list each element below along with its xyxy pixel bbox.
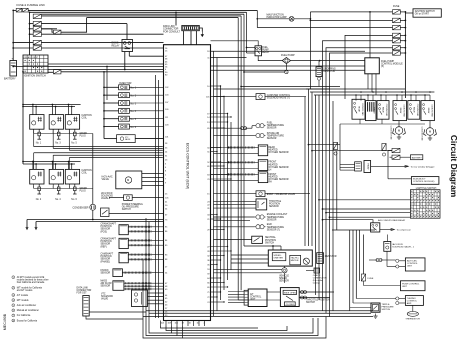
connector throttle switch a: [301, 291, 307, 294]
wire left loop c: [149, 328, 172, 334]
svg-text:SWITCH: SWITCH: [382, 309, 391, 311]
wire sensor front heated oxygen RH lead: [211, 173, 229, 175]
wire ECCS relay pins bottom: [124, 52, 126, 70]
svg-text:CONTROL MODULE): CONTROL MODULE): [413, 181, 435, 183]
spark plug No. 4 rear: [58, 184, 60, 187]
injector No.1: [119, 85, 130, 90]
sensor front heated oxygen LH: [258, 160, 267, 171]
spark plug No. 6 rear: [74, 184, 76, 187]
svg-text:IGNITION SWITCH: IGNITION SWITCH: [415, 11, 435, 13]
svg-text:COIL: COIL: [82, 117, 88, 119]
svg-text:REAR: REAR: [268, 146, 275, 149]
wire fuse F5 to ECM: [41, 42, 163, 44]
wire FP relay feeds: [247, 52, 256, 54]
fusible link 1: [16, 8, 22, 12]
svg-text:Except for California: Except for California: [17, 319, 38, 322]
svg-text:AIR FLOW: AIR FLOW: [101, 282, 113, 285]
wire left bus C: [145, 218, 147, 330]
wire coolant temp: [214, 216, 255, 218]
fuse right 5: [393, 39, 401, 43]
svg-text:All M/T models except GXE: All M/T models except GXE: [17, 276, 45, 279]
fuse right mid 1: [392, 148, 400, 152]
svg-text:Circuit Diagram: Circuit Diagram: [449, 135, 459, 197]
wire coil ground No. 5 front: [68, 129, 70, 133]
svg-text:COOLING FAN: COOLING FAN: [390, 126, 393, 140]
wire injector supply bus vertical: [103, 72, 105, 124]
svg-text:RH: RH: [268, 182, 272, 184]
wire injector No.1 feed: [104, 86, 119, 88]
svg-text:(POS): (POS): [101, 231, 108, 233]
box IGNITION SWITCH ON or START: [413, 9, 441, 17]
wire fuse F4 to ECM: [41, 33, 163, 35]
connector auto A/C b: [396, 259, 399, 262]
svg-text:TEMPERATURE: TEMPERATURE: [267, 124, 285, 127]
wire ECM bottom L-runs: [161, 326, 259, 328]
wire sensor front heated oxygen RH b: [214, 180, 259, 182]
wire coolant temp b: [214, 219, 251, 221]
wire bus V1 d: [223, 97, 225, 291]
svg-text:No. 3: No. 3: [131, 103, 137, 105]
svg-text:AIR CONDITIONER RELAY: AIR CONDITIONER RELAY: [378, 219, 406, 222]
wires lighting switch left: [319, 199, 410, 201]
svg-text:No. 5: No. 5: [131, 119, 137, 121]
svg-text:SOLENOID VALVE (7): SOLENOID VALVE (7): [267, 97, 290, 100]
svg-text:COOLING FAN: COOLING FAN: [430, 104, 433, 117]
wire BCM left: [388, 178, 411, 180]
sensor rear heated oxygen: [258, 145, 267, 156]
svg-text:CLOSED: CLOSED: [286, 304, 295, 306]
battery: [10, 61, 17, 77]
svg-text:Auto air conditioner: Auto air conditioner: [17, 304, 37, 307]
unit AUTO A/C CONTROL UNIT: [405, 258, 425, 271]
wire fuse right 2 out: [400, 19, 405, 21]
switch triple-pressure: [371, 303, 380, 312]
wire FP relay top to ECM: [211, 41, 259, 46]
wire injector No.5 to ECM: [129, 118, 163, 120]
shielded wire sensor front heated oxygen LH a: [229, 161, 255, 163]
svg-text:No. 1: No. 1: [36, 143, 42, 145]
wire coil ground No. 6 rear: [68, 184, 70, 188]
wire fuel temp left: [214, 127, 243, 129]
svg-text:SWITCH: SWITCH: [306, 302, 315, 304]
odometer box: [290, 255, 301, 264]
relay cooling fan relay-2: [377, 101, 389, 120]
ignition coil No. 6 rear: [65, 169, 79, 184]
fuel pump: [282, 58, 290, 64]
wire under relays bus: [340, 123, 425, 125]
svg-text:BATTERY: BATTERY: [412, 156, 422, 159]
svg-text:DATA LINK: DATA LINK: [77, 286, 89, 289]
wire battery riser: [12, 10, 14, 60]
wire fuel pump return: [244, 71, 285, 73]
wire relay row risers: [355, 95, 357, 101]
sensor throttle position: [256, 199, 267, 210]
wire left loop a: [143, 333, 183, 339]
wire coil feed bus rear: [23, 161, 81, 163]
sensor mass air flow: [113, 281, 124, 291]
wire canister valve right: [265, 96, 306, 98]
svg-text:For California: For California: [17, 314, 31, 317]
check connector symbol: [314, 268, 320, 273]
wire bus V3 f: [322, 95, 324, 311]
wire injector No.3 feed: [104, 102, 119, 104]
svg-text:5: 5: [13, 305, 14, 307]
injector No.6: [119, 124, 130, 129]
wire condenser to ground bus: [92, 210, 94, 219]
wire left bus E: [142, 260, 144, 333]
wire EGRC valve right: [265, 193, 310, 195]
svg-text:than California and Canada: than California and Canada: [17, 281, 45, 284]
svg-text:RELAY: RELAY: [262, 51, 270, 54]
svg-text:FUEL PUMP: FUEL PUMP: [281, 54, 295, 57]
svg-text:METER: METER: [291, 260, 299, 262]
svg-text:M: M: [127, 178, 129, 182]
svg-text:OXYGEN SENSOR: OXYGEN SENSOR: [268, 167, 289, 169]
wire fuel pump right: [291, 60, 366, 62]
wire ECM to FP module 1: [211, 50, 366, 52]
svg-text:RELAY: RELAY: [358, 106, 361, 113]
connector throttle switch b: [301, 296, 307, 299]
ignition coil No. 2 rear: [30, 169, 44, 184]
svg-text:SENSOR: SENSOR: [267, 219, 277, 221]
wire prc valve to ECM: [135, 138, 163, 140]
valve pressure regulator control solenoid: [117, 135, 136, 143]
svg-text:FOR GST: FOR GST: [77, 293, 88, 295]
wire bus V3 a: [304, 97, 306, 246]
wire fuse right 3 out: [400, 27, 405, 29]
wire F8 to ECM: [61, 71, 164, 73]
shielded wire sensor mass air flow: [124, 285, 152, 287]
svg-text:COOLING FAN: COOLING FAN: [416, 104, 419, 117]
svg-text:(5): (5): [381, 66, 384, 68]
svg-text:1: 1: [13, 277, 14, 279]
wire F7 right riser to top bus: [61, 18, 87, 33]
wire coil ground No. 4 rear: [52, 184, 54, 188]
svg-text:M/T models: M/T models: [17, 300, 30, 302]
condenser: [90, 204, 96, 210]
svg-text:No. 4: No. 4: [55, 199, 61, 201]
wire defogger relay feed a: [343, 164, 355, 166]
wire fuse mid feed: [312, 150, 392, 152]
shielded wire sensor mass air flow: [124, 282, 152, 284]
legend item 5: [12, 304, 15, 307]
wire FICD1 top: [386, 235, 388, 242]
wire injector No.6 feed: [104, 126, 119, 128]
svg-text:THERMISTOR: THERMISTOR: [405, 318, 420, 320]
wire throttle switch left: [267, 291, 281, 293]
wire injector No.4 to ECM: [129, 110, 163, 112]
wire top bus y10: [28, 9, 257, 11]
fuse right 2: [393, 18, 401, 22]
fuse right 1: [393, 10, 401, 14]
svg-text:TEMPERATURE: TEMPERATURE: [267, 216, 285, 219]
wire defogger relay feed b: [343, 166, 355, 168]
wire ground bus upper: [27, 219, 164, 221]
wire sensor front heated oxygen LH tail: [255, 161, 259, 163]
wire coil feed drops rear: [32, 162, 34, 170]
wire sensor rear heated oxygen lead: [211, 147, 229, 149]
svg-text:FUSE: FUSE: [393, 5, 400, 8]
svg-text:RELAY: RELAY: [373, 107, 376, 114]
svg-text:EGRC - SOLENOID VALVE: EGRC - SOLENOID VALVE: [267, 193, 296, 196]
wire bus V3 j: [336, 151, 338, 230]
svg-text:RESISTOR: RESISTOR: [325, 256, 337, 258]
wire sensor rear heated oxygen b: [214, 153, 259, 155]
svg-text:WIDE OPEN: WIDE OPEN: [284, 292, 296, 294]
wire bus V3 i: [332, 101, 334, 311]
wire bus V3 b: [308, 89, 310, 246]
wire dropping resistor down: [318, 80, 320, 86]
svg-text:INJECTOR: INJECTOR: [119, 82, 132, 85]
wire auto A/C: [369, 259, 378, 261]
wire top bus y14: [42, 13, 244, 15]
svg-text:RELAY: RELAY: [366, 163, 369, 170]
shielded wire sensor mass air flow: [124, 288, 152, 290]
switch neutral position: [252, 236, 263, 243]
svg-text:and A/T models: and A/T models: [17, 289, 33, 292]
svg-text:IGNITION SWITCH: IGNITION SWITCH: [24, 75, 46, 78]
meter lamp: [303, 258, 309, 264]
combination meter box: [268, 250, 312, 266]
svg-text:COOLING FAN: COOLING FAN: [421, 127, 424, 141]
wire bottom bus 3: [143, 316, 373, 318]
ground motor cooling fan 1: [397, 135, 401, 140]
svg-text:COOLING FAN: COOLING FAN: [361, 103, 364, 116]
wire fan motor drops: [398, 121, 400, 128]
svg-text:ON or START: ON or START: [415, 13, 430, 16]
svg-text:HEATED: HEATED: [268, 149, 277, 152]
svg-text:COIL: COIL: [82, 173, 88, 175]
wire MIL left: [257, 18, 289, 20]
shielded wire sensor camshaft position PHASE: [128, 254, 152, 256]
wire consult pin 3: [195, 31, 197, 45]
wire bus V1 a: [213, 51, 215, 316]
wire bus V3 d: [315, 95, 317, 295]
wire ignition sw box feed: [405, 12, 413, 14]
wire fuse column left feeds: [30, 23, 34, 25]
svg-text:No. 4: No. 4: [131, 111, 137, 113]
shielded wire sensor rear heated oxygen a: [229, 146, 255, 148]
motor cooling fan 1: [395, 127, 403, 135]
sensor EGR temperature: [255, 225, 266, 229]
svg-text:BATTERY: BATTERY: [4, 77, 16, 81]
wire FP relay to pump: [258, 56, 282, 61]
svg-text:6: 6: [13, 310, 14, 312]
wire consult shield to arrow: [199, 28, 202, 32]
wire injector No.2 feed: [104, 94, 119, 96]
wire coil ground No. 2 rear: [33, 184, 35, 188]
svg-text:AMP.: AMP.: [407, 302, 412, 305]
svg-text:COOLING FAN: COOLING FAN: [403, 104, 406, 117]
wire bus V3 c: [311, 92, 313, 246]
svg-text:MEC490B: MEC490B: [3, 313, 7, 330]
svg-text:HEATED: HEATED: [268, 163, 277, 166]
connector data link for CONSULT: [182, 26, 200, 31]
wire fuel pump down: [285, 64, 287, 71]
wire ignition switch to ECM b1: [48, 69, 164, 71]
wire sensor front heated oxygen RH tail: [255, 173, 259, 175]
fuse A/C: [361, 274, 365, 281]
connector auto A/C: [376, 259, 382, 262]
fuse F7: [53, 30, 61, 34]
wire injector No.1 to ECM: [129, 86, 163, 88]
wire thermistor link: [412, 305, 414, 311]
wire ignition switch to fuse F8: [48, 71, 54, 73]
wire ECM right y57.5: [211, 57, 247, 59]
injector No.2: [119, 93, 130, 98]
svg-text:FUSE & FUSIBLE LINK: FUSE & FUSIBLE LINK: [17, 3, 46, 7]
fuse F8: [53, 70, 61, 74]
wire ground bus lower: [36, 221, 164, 223]
fuse F5: [33, 40, 41, 44]
wire injector No.4 feed: [104, 110, 119, 112]
svg-text:SENSOR: SENSOR: [101, 286, 111, 288]
box BATTERY right: [411, 155, 423, 160]
wire bus V4 top: [332, 229, 375, 231]
wire to rear window defogger: [371, 165, 408, 167]
svg-text:RELAY: RELAY: [412, 107, 415, 114]
wire bus V2 e: [256, 10, 258, 27]
sensor knock: [113, 269, 123, 277]
relay cooling fan relay-3: [393, 101, 407, 121]
wire bus V4 c: [355, 230, 357, 299]
wire bus V3 h: [329, 95, 331, 317]
svg-text:4: 4: [13, 300, 14, 302]
wire bus V1 e: [227, 114, 229, 281]
ground arrow consult: [201, 32, 203, 37]
wire fuse right 7 out: [400, 52, 405, 54]
svg-text:INTAKE AIR: INTAKE AIR: [267, 132, 280, 135]
unit THERMO CONTROL AMP: [405, 296, 423, 306]
wire sensor rear heated oxygen tail: [255, 147, 259, 149]
svg-text:No. 6: No. 6: [131, 127, 137, 129]
wire left bus B: [158, 80, 160, 318]
fuse cooling fan harness: [333, 143, 337, 150]
fuse right 6: [393, 46, 401, 50]
svg-text:OXYGEN SENSOR: OXYGEN SENSOR: [268, 152, 289, 154]
svg-text:3: 3: [13, 295, 14, 297]
ignition switch contact dots: [25, 60, 26, 61]
wire fuse F3 to riser x86.6: [41, 29, 53, 32]
wire fuse right 2 feed: [310, 19, 392, 21]
svg-text:PLUG: PLUG: [80, 135, 86, 137]
svg-text:To compressor: To compressor: [397, 229, 412, 232]
wire EGR temp: [214, 226, 255, 228]
connector dropping resistor bottom: [317, 77, 320, 80]
wire mid bus y89: [214, 88, 331, 90]
injector No.3: [119, 101, 130, 106]
relay cooling fan relay-4: [421, 101, 434, 121]
svg-text:+: +: [12, 57, 14, 61]
wire consult feed from top bus: [175, 12, 177, 25]
wire coil feed bus front: [23, 104, 81, 106]
wire check connector stub: [306, 270, 314, 272]
wire FP module bottom pins: [367, 74, 369, 89]
legend item 2: [12, 286, 15, 289]
injector No.4: [119, 108, 130, 113]
svg-text:VALVE: VALVE: [125, 138, 131, 141]
wire riser x29.5: [29, 12, 31, 55]
svg-text:FUSE: FUSE: [368, 278, 374, 280]
shielded wire sensor crankshaft position POS: [128, 230, 152, 232]
relay FUEL PUMP RELAY: [255, 46, 262, 56]
svg-text:RELAY: RELAY: [427, 108, 430, 115]
ignition coil No. 4 rear: [49, 169, 63, 184]
wire canister valve left: [214, 96, 257, 98]
switch power steering oil pressure: [101, 208, 110, 217]
wire F8 fuse lead: [53, 71, 55, 73]
svg-text:SWITCH: SWITCH: [265, 242, 274, 244]
sensor front heated oxygen RH: [258, 172, 267, 183]
wires speedo cluster left: [231, 254, 268, 256]
connector fuel pump gauge: [285, 70, 288, 73]
svg-text:No. 6: No. 6: [71, 199, 77, 201]
wire defogger relay feed c: [343, 169, 355, 171]
switch lighting switch grid: [410, 190, 440, 219]
fuse F2: [33, 21, 41, 25]
legend item 8: [12, 319, 15, 322]
injector No.5: [119, 116, 130, 121]
svg-text:NEUTRAL: NEUTRAL: [265, 236, 276, 239]
ECM ECCS control unit box: [164, 45, 211, 321]
module FUEL PUMP CONTROL MODULE: [365, 58, 380, 74]
ground triple pressure switch: [373, 314, 377, 319]
wire fuse right 5 out: [400, 40, 405, 42]
wire dropping resistor top: [318, 61, 320, 67]
sensor vehicle speed: [282, 268, 287, 273]
svg-text:A/T models: A/T models: [17, 294, 29, 297]
svg-text:IACV-FICD: IACV-FICD: [101, 192, 113, 195]
wire prc valve feed: [104, 138, 117, 140]
svg-text:OFF ACC ON ST: OFF ACC ON ST: [24, 56, 39, 59]
shielded wire sensor front heated oxygen RH a: [229, 173, 255, 175]
svg-text:SENSOR: SENSOR: [267, 138, 277, 140]
wire to VSS b: [214, 272, 282, 274]
wire ECM to FP module 3: [211, 69, 366, 71]
unit A/T CONTROL UNIT: [248, 289, 267, 307]
shielded wire sensor crankshaft position REF: [128, 239, 152, 241]
wire bus V2 c: [243, 14, 245, 246]
wire top bus y18: [87, 17, 239, 19]
switch wide open / closed throttle: [280, 288, 299, 307]
wire fuse F2 to ECCS relay: [41, 23, 127, 25]
svg-text:SENSOR: SENSOR: [279, 281, 289, 283]
svg-text:ECCS CONTROL UNIT (ECM): ECCS CONTROL UNIT (ECM): [186, 143, 190, 189]
legend item 3: [12, 294, 15, 297]
svg-text:(PHASE): (PHASE): [101, 260, 111, 263]
wire ECM right pin stubs: [211, 85, 221, 87]
shielded wire sensor crankshaft position POS: [128, 226, 152, 228]
thermistor: [407, 312, 418, 317]
motor cooling fan 2: [426, 128, 434, 136]
wires VTC valve to ECM: [148, 292, 164, 294]
legend item 7: [12, 314, 15, 317]
sensor crankshaft position REF: [119, 238, 128, 248]
spark plug No. 5 front: [74, 129, 76, 132]
resistor right: [317, 253, 324, 264]
wire ignition switch to ECM b2: [48, 63, 164, 65]
svg-text:A/T: A/T: [250, 293, 254, 296]
wire bus V1 f: [230, 122, 232, 270]
wire bus V4 b: [352, 230, 354, 303]
wire injector No.6 to ECM: [129, 126, 163, 128]
ignition switch: [23, 55, 48, 73]
svg-text:No. 2: No. 2: [131, 95, 137, 97]
wire defogger riser: [339, 124, 341, 170]
fuse right mid 2: [392, 155, 400, 159]
wire FICD to ECM: [132, 197, 163, 199]
legend item 1: [12, 276, 15, 279]
